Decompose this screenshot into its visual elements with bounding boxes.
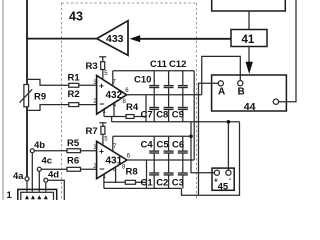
wire riser channel 1: [145, 95, 147, 122]
svg-text:C3: C3: [172, 177, 184, 188]
wire R2 to 432 pin 2: [79, 104, 97, 106]
wire stub to bottom rail channel 1: [111, 117, 113, 122]
wire top rail 1 down to output rail 431: [193, 71, 195, 160]
svg-text:43: 43: [69, 10, 83, 24]
capacitor C5: [164, 136, 174, 160]
connector block 1 (cut off at bottom edge): [18, 189, 57, 202]
wire 433 output to node 4a line: [27, 38, 97, 40]
wire 432 pin 4 stub: [113, 103, 115, 117]
svg-text:−: −: [99, 164, 104, 174]
svg-text:C2: C2: [156, 177, 168, 188]
block 44: [212, 75, 287, 111]
svg-text:C8: C8: [156, 110, 168, 121]
resistor R1: [69, 83, 79, 87]
svg-text:C5: C5: [157, 140, 170, 151]
wire R4 to riser channel 1: [134, 116, 146, 118]
block 41: [231, 30, 267, 47]
op-amp 433: [97, 21, 128, 56]
wire 431 pin 4 stub: [115, 167, 117, 182]
svg-text:R4: R4: [126, 102, 139, 113]
resistor R2: [69, 103, 79, 107]
svg-text:R9: R9: [34, 92, 46, 103]
svg-text:A: A: [218, 86, 225, 97]
terminal C of block 44: [273, 99, 278, 104]
wire R5 to 431 pin 3: [81, 150, 97, 152]
svg-text:C12: C12: [169, 59, 186, 70]
svg-text:R6: R6: [67, 155, 79, 166]
resistor R3 (with top bar, on 432 pin 5): [99, 57, 106, 80]
wire 431 pin 7 riser: [112, 136, 114, 151]
resistor R9 (adjustable): [24, 85, 29, 107]
wire terminal C to right edge: [279, 0, 296, 102]
svg-text:+: +: [99, 146, 104, 156]
svg-text:4b: 4b: [34, 140, 45, 151]
capacitor C6: [178, 136, 188, 160]
svg-text:431: 431: [106, 155, 123, 166]
capacitor C2: [164, 160, 174, 188]
wire bottom return: [182, 122, 240, 196]
wire 41 down to block 44: [248, 47, 250, 64]
wire 432 pin 1 stub: [103, 109, 105, 116]
wire 41 left to amp 433: [139, 38, 232, 40]
wire to battery plus terminal: [191, 122, 214, 173]
svg-text:41: 41: [242, 34, 255, 46]
wire feedback line to R4: [104, 116, 126, 118]
svg-text:B: B: [238, 86, 245, 97]
op-amp 432: [97, 76, 127, 115]
wire output rail 432: [127, 94, 202, 96]
svg-text:4d: 4d: [48, 170, 59, 181]
svg-text:C1: C1: [141, 177, 154, 188]
wire R6 to 431 pin 2: [81, 168, 97, 170]
svg-text:C11: C11: [150, 59, 168, 70]
terminal A: [218, 81, 223, 86]
battery block 45: [212, 168, 234, 190]
wire R1 to 432 pin 3: [79, 84, 97, 86]
capacitor C9: [178, 95, 188, 122]
capacitor C4: [149, 136, 159, 160]
wire bottom rail channel 2: [104, 187, 182, 189]
svg-text:433: 433: [106, 33, 124, 45]
capacitor C7: [149, 95, 159, 122]
dashed enclosure box 43: [62, 3, 197, 200]
svg-text:45: 45: [218, 181, 229, 192]
arrowhead into block 44: [246, 62, 253, 74]
resistor R8: [125, 180, 135, 184]
port 4c: [37, 167, 41, 171]
capacitor C1: [149, 160, 159, 188]
svg-text:C9: C9: [172, 110, 184, 121]
svg-text:C6: C6: [172, 140, 184, 151]
svg-text:−: −: [99, 99, 104, 109]
wire battery minus to bottom rail: [227, 122, 229, 170]
svg-text:R3: R3: [86, 61, 98, 72]
wire bottom rail channel 1: [112, 121, 240, 123]
resistor R6: [67, 167, 81, 171]
resistor R7 (with top bar, on 431 pin 5): [99, 123, 106, 145]
svg-text:R7: R7: [86, 126, 98, 137]
port 4d: [44, 178, 48, 182]
wire 432 pin 7 riser: [112, 71, 114, 86]
svg-text:44: 44: [244, 101, 256, 113]
wire 4d down to bottom edge: [48, 180, 65, 200]
wire node B from output rail 432: [202, 56, 241, 94]
junction top rail channel 2: [189, 135, 193, 139]
wire branch above R9 to R1: [27, 79, 69, 85]
junction battery minus: [227, 120, 231, 124]
svg-text:R2: R2: [68, 89, 80, 100]
wire top rail channel 2: [113, 135, 191, 137]
wire 4b stub to connector: [31, 153, 33, 192]
capacitor C10: [149, 71, 159, 95]
battery minus terminal: [226, 170, 231, 175]
svg-text:R8: R8: [126, 167, 138, 178]
svg-text:R1: R1: [68, 73, 81, 84]
left boundary line: [2, 0, 4, 200]
wire 4c stub to connector: [38, 171, 40, 191]
wire output rail 431: [127, 159, 194, 161]
svg-text:R5: R5: [67, 138, 80, 149]
wire feedback line to R8: [104, 181, 125, 183]
svg-text:+: +: [99, 81, 104, 91]
resistor R5: [67, 149, 81, 153]
svg-text:C4: C4: [141, 140, 154, 151]
terminal B: [238, 81, 243, 86]
wire 4b to R5: [34, 150, 67, 152]
svg-text:4a: 4a: [13, 171, 24, 182]
capacitor C8: [164, 95, 174, 122]
wire top rail channel 1: [113, 70, 194, 72]
battery plus terminal: [214, 170, 219, 175]
op-amp 431: [97, 141, 127, 178]
wire 4a stub to connector: [26, 181, 28, 192]
capacitor C11: [164, 71, 174, 95]
wire branch below R9 to R2: [27, 105, 69, 111]
svg-text:432: 432: [106, 90, 123, 101]
capacitor C3: [178, 160, 188, 188]
wire main vertical lower (R9 to port 4a): [26, 107, 28, 177]
wire main vertical upper (to R9): [26, 0, 28, 85]
wire R8 to riser channel 2: [136, 181, 147, 183]
wire node A from bottom wire: [199, 83, 219, 195]
resistor R4: [126, 115, 134, 119]
wire top box to block 41: [248, 11, 250, 30]
svg-text:4c: 4c: [42, 155, 53, 166]
wire riser channel 2: [146, 160, 148, 188]
svg-text:1: 1: [7, 190, 13, 200]
wire 4c to R6: [41, 168, 67, 170]
port 4a: [25, 177, 29, 181]
capacitor C12: [178, 71, 188, 95]
svg-text:C10: C10: [134, 74, 151, 85]
connector pins: [25, 195, 48, 199]
arrowhead into amp 433: [130, 35, 141, 42]
port 4b: [30, 149, 34, 153]
wire 4d stub to connector: [45, 182, 47, 191]
svg-text:C7: C7: [141, 110, 153, 121]
block 42 top box (cut off at top edge): [212, 0, 286, 11]
wire 431 pin 1 stub: [103, 174, 105, 188]
